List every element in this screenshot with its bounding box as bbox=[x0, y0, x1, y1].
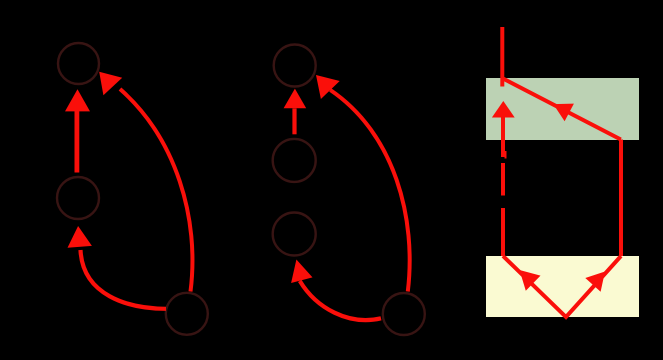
node circle B1 (top) bbox=[274, 45, 316, 87]
output line above green box bbox=[500, 27, 504, 87]
dashed segment 1 bbox=[501, 163, 505, 196]
straight arrow A2 to A1: head bbox=[65, 89, 90, 111]
yellow layer box bbox=[486, 256, 639, 317]
right vertical line bbox=[619, 140, 623, 257]
up arrow tail solid segment bbox=[501, 116, 505, 157]
diagonal arrow shaft from right column to junction bbox=[503, 79, 621, 140]
node circle B4 (bottom right) bbox=[383, 293, 425, 335]
curved arrow B4 to B3: head bbox=[291, 260, 312, 284]
up arrow head inside green box bbox=[492, 101, 515, 118]
dashed segment 2 bbox=[501, 208, 505, 256]
straight arrow A2 to A1: shaft bbox=[75, 111, 80, 173]
dash notch bbox=[505, 151, 507, 159]
curved arrow A3 to A1: shaft bbox=[120, 89, 192, 292]
V right branch head bbox=[585, 272, 605, 292]
straight arrow B2 to B1: shaft bbox=[292, 109, 296, 135]
curved arrow B4 to B1: head bbox=[316, 75, 340, 99]
curved arrow A3 to A2: shaft bbox=[81, 250, 167, 309]
node circle A3 (bottom right) bbox=[166, 293, 208, 335]
V left branch head bbox=[520, 270, 541, 291]
node circle A2 (middle) bbox=[57, 177, 99, 219]
V path inside yellow box bbox=[503, 256, 621, 317]
curved arrow B4 to B3: shaft bbox=[300, 281, 381, 320]
node circle A1 (top) bbox=[58, 43, 99, 84]
straight arrow B2 to B1: head bbox=[284, 89, 307, 109]
diagonal arrow head bbox=[553, 104, 574, 122]
curved arrow A3 to A2: head bbox=[68, 226, 92, 248]
node circle B2 (second) bbox=[273, 139, 316, 182]
curved arrow A3 to A1: head bbox=[99, 72, 122, 95]
node circle B3 (third) bbox=[273, 213, 316, 256]
curved arrow B4 to B1: shaft bbox=[330, 90, 409, 292]
green layer box bbox=[486, 78, 639, 140]
